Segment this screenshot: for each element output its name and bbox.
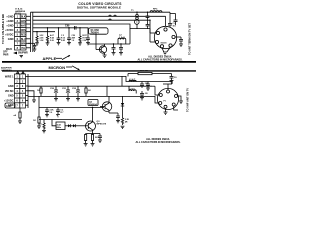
svg-text:BRN: BRN	[21, 43, 26, 45]
ground	[32, 100, 36, 103]
capacitor C13	[140, 82, 144, 89]
transformer T1	[135, 12, 140, 28]
svg-text:3: 3	[16, 85, 18, 88]
capacitor C4	[86, 28, 90, 43]
rotated text right upper	[188, 23, 192, 55]
ground	[103, 55, 107, 58]
J2 pin 6	[172, 35, 175, 38]
capacitor C24	[146, 82, 150, 89]
ground	[170, 81, 174, 84]
label box GND lug	[5, 103, 15, 108]
svg-text:+12VDC: +12VDC	[4, 99, 14, 102]
svg-text:GND: GND	[8, 95, 14, 98]
svg-text:4: 4	[16, 90, 18, 93]
svg-text:PWR: PWR	[3, 54, 9, 56]
ground	[46, 43, 50, 45]
J2 pin 4	[160, 45, 163, 48]
svg-text:RFC: RFC	[153, 9, 158, 11]
resistor R3	[79, 28, 81, 43]
svg-text:BLK: BLK	[21, 16, 26, 18]
connector J1 pin numbers	[17, 16, 19, 51]
resistor R50	[128, 72, 172, 76]
wire to modulator	[169, 12, 171, 21]
inductor L1	[129, 80, 136, 81]
svg-text:TO ANT TERM ON TV SET: TO ANT TERM ON TV SET	[188, 23, 192, 55]
ground	[91, 144, 95, 147]
wire J4 pin5 down	[174, 106, 178, 110]
svg-text:5: 5	[22, 95, 24, 98]
svg-text:3: 3	[17, 25, 19, 28]
value labels	[50, 34, 54, 42]
wire rail B	[39, 119, 82, 121]
svg-text:+GND: +GND	[6, 19, 13, 23]
transistor Q3	[82, 118, 96, 134]
J4 pin 3	[159, 102, 162, 105]
wire to J2 pin2	[149, 20, 151, 33]
ground	[67, 43, 71, 45]
value labels	[40, 35, 45, 42]
ground	[45, 115, 49, 117]
wire Q3 collector up	[92, 108, 94, 119]
rotated text right lower	[186, 88, 190, 112]
separator line APPLE/MICRON	[2, 61, 196, 63]
svg-text:MPS5179: MPS5179	[97, 124, 107, 126]
ground	[164, 112, 168, 115]
wire to J4 pin3	[152, 96, 159, 103]
wire +5V rail	[33, 15, 166, 17]
ground	[121, 126, 125, 128]
svg-text:L1 4.7: L1 4.7	[129, 78, 136, 81]
arrow to switch	[13, 52, 17, 55]
capacitor C9 right	[170, 14, 178, 26]
adapter harness text	[1, 67, 12, 73]
svg-text:MHz: MHz	[57, 127, 62, 129]
wire net top	[31, 11, 171, 13]
svg-text:2 2K: 2 2K	[83, 40, 88, 42]
separator line 2	[2, 70, 196, 72]
connector J3 header marks	[17, 72, 19, 74]
rotated side text: TO PIN ON APPLE II BD	[1, 14, 5, 44]
ground	[112, 53, 116, 56]
svg-text:MC/O: MC/O	[6, 49, 12, 51]
ground	[18, 121, 22, 124]
resistor R6	[85, 86, 87, 96]
switch labels MC/O OFF PWR	[3, 49, 12, 57]
bus J3	[27, 74, 29, 108]
svg-text:TO VHF ANT ON TV: TO VHF ANT ON TV	[186, 88, 190, 112]
title text	[77, 2, 122, 10]
ground	[20, 56, 24, 58]
svg-text:6: 6	[17, 38, 19, 41]
capacitor C23	[28, 43, 36, 49]
J4 pin 1	[167, 90, 170, 93]
svg-text:2N3904: 2N3904	[91, 31, 100, 34]
inductor RFC coil	[150, 11, 162, 13]
resistor R1	[36, 32, 38, 43]
wire from J3 bottom	[19, 108, 21, 112]
capacitor C7b	[146, 25, 150, 29]
resistor R11	[91, 134, 93, 144]
capacitor C16 top right of J4	[171, 80, 173, 84]
svg-text:1.5K: 1.5K	[40, 40, 45, 42]
svg-text:2: 2	[17, 20, 19, 23]
svg-text:1K: 1K	[37, 90, 40, 92]
svg-text:2K: 2K	[95, 137, 98, 139]
wire rail A	[39, 107, 104, 109]
svg-text:6: 6	[22, 100, 24, 103]
wire hop marks	[109, 15, 111, 16]
svg-text:B3x: B3x	[39, 124, 43, 126]
wire rail2	[33, 19, 150, 21]
svg-text:ORN: ORN	[21, 30, 26, 32]
bus bars	[30, 12, 32, 52]
svg-text:2K: 2K	[88, 90, 91, 92]
svg-text:SW/PWR: SW/PWR	[18, 53, 28, 55]
wire drop gnd	[28, 91, 34, 100]
label Q2	[88, 100, 98, 106]
resistor R5	[40, 86, 42, 96]
capacitor C20	[45, 108, 49, 115]
svg-text:1: 1	[22, 76, 24, 79]
ground	[42, 131, 46, 133]
wire to J4 top	[167, 84, 169, 90]
crystal Y1 box	[56, 122, 65, 130]
ground	[146, 88, 150, 90]
resistor R2	[46, 28, 48, 43]
connector J3 body	[15, 74, 26, 108]
value labels	[83, 35, 88, 42]
svg-text:2: 2	[16, 80, 18, 83]
notes lower	[135, 138, 180, 144]
svg-text:161: 161	[173, 25, 176, 27]
wire rail L2	[28, 85, 152, 87]
ground	[179, 101, 183, 104]
svg-text:P1: P1	[164, 101, 166, 103]
capacitor C15	[170, 74, 174, 81]
wire J4 pin4 to ground	[165, 108, 167, 112]
svg-text:5 68: 5 68	[50, 40, 54, 42]
svg-text:WIRE 1: WIRE 1	[5, 75, 14, 78]
inductor L3	[129, 86, 136, 93]
svg-text:SO239: SO239	[161, 43, 167, 45]
wire Q2 emitter	[109, 112, 118, 114]
ground	[56, 115, 60, 117]
ground	[66, 99, 70, 102]
capacitor C11 electrolytic	[54, 86, 58, 98]
J2 pin 2	[156, 31, 159, 34]
value labels	[61, 35, 66, 42]
svg-text:4R: 4R	[125, 121, 128, 124]
value labels	[72, 35, 76, 42]
svg-text:1: 1	[16, 76, 18, 79]
svg-text:WHT: WHT	[21, 25, 27, 27]
capacitor C22 electrolytic	[76, 86, 80, 98]
capacitor C12 electrolytic	[66, 86, 70, 98]
capacitor C2	[67, 28, 71, 43]
wire crystal left	[52, 120, 56, 126]
connector J3 pin numbers	[16, 76, 24, 108]
svg-text:APPLE: APPLE	[43, 56, 57, 61]
wire rail5	[33, 31, 55, 33]
wire to J4 pin2	[152, 85, 155, 87]
label box Q1	[89, 28, 109, 34]
svg-text:5: 5	[17, 34, 19, 37]
capacitor C17	[116, 113, 120, 121]
svg-text:10: 10	[174, 77, 177, 79]
J4 pin 2	[159, 94, 162, 97]
svg-text:1 8: 1 8	[72, 40, 75, 42]
ground	[54, 99, 58, 102]
svg-text:+GND: +GND	[6, 14, 13, 18]
ground	[163, 52, 167, 55]
bus stubs	[26, 15, 31, 17]
resistor R8	[38, 96, 40, 126]
resistor R7	[19, 112, 21, 121]
svg-text:6: 6	[16, 100, 18, 103]
svg-text:RED: RED	[21, 34, 26, 36]
svg-text:T1: T1	[131, 10, 134, 12]
svg-text:L2 10: L2 10	[129, 89, 135, 91]
RF connector J2 shell	[154, 26, 176, 48]
capacitor C8	[168, 21, 172, 27]
connector J1 pin labels	[5, 14, 14, 41]
svg-text:ALL CAPACITORS IN MICROFARADS.: ALL CAPACITORS IN MICROFARADS.	[137, 58, 182, 61]
ground	[116, 121, 120, 123]
svg-text:OFF: OFF	[3, 52, 8, 54]
inductor L2	[118, 38, 126, 44]
svg-text:VID BO: VID BO	[5, 90, 14, 93]
ground	[84, 144, 88, 147]
J2 pin 5	[169, 44, 172, 47]
svg-text:8: 8	[17, 47, 19, 50]
svg-text:GND: GND	[8, 37, 14, 41]
ground	[119, 53, 123, 56]
transistor Q1	[96, 44, 107, 55]
capacitor C21	[56, 108, 60, 115]
svg-text:2: 2	[22, 80, 24, 83]
wire rail L3	[28, 95, 152, 97]
wire rail3	[33, 24, 150, 42]
svg-text:R 7: R 7	[61, 112, 64, 114]
connector J1 header text	[15, 8, 26, 15]
ground	[37, 126, 41, 129]
ground	[86, 43, 90, 45]
svg-text:BLU: BLU	[21, 39, 26, 41]
ground	[140, 98, 144, 101]
svg-text:1.2uH: 1.2uH	[119, 37, 125, 39]
svg-text:YEL: YEL	[21, 48, 26, 50]
notes upper	[137, 55, 182, 61]
diode D3	[73, 124, 82, 127]
wire J2 pin6 to cap	[175, 36, 181, 38]
resistor R9	[43, 120, 45, 131]
J4 pin 6	[175, 95, 178, 98]
svg-text:7: 7	[17, 43, 19, 46]
svg-text:4: 4	[22, 90, 24, 93]
connector J3 pin labels	[4, 75, 14, 107]
capacitor C7	[146, 12, 150, 24]
svg-text:a8: a8	[14, 115, 17, 117]
transistor Q2	[100, 96, 112, 113]
wire to J2 pin3	[150, 41, 155, 43]
diode D1	[121, 96, 124, 118]
svg-text:5 6: 5 6	[50, 112, 53, 114]
ground	[76, 99, 80, 102]
svg-text:MICRON: MICRON	[49, 65, 66, 70]
wire rail4 with node C99	[33, 27, 89, 29]
ground	[98, 140, 102, 143]
ground	[35, 43, 39, 45]
capacitor C18	[93, 134, 103, 141]
resistor R12	[121, 118, 123, 125]
ground	[78, 43, 82, 45]
RF connector J4 shell	[157, 88, 178, 109]
wire Q1 collector rail	[88, 43, 130, 45]
svg-text:DIGITAL SOFTWARE MODULE: DIGITAL SOFTWARE MODULE	[77, 5, 121, 9]
svg-text:7: 7	[16, 104, 18, 107]
wire box loop	[106, 86, 108, 96]
wire J2 pin5 to ground	[167, 47, 171, 52]
svg-text:HARNESS: HARNESS	[1, 69, 12, 72]
svg-text:4: 4	[17, 29, 19, 32]
capacitor C6	[119, 44, 123, 53]
ground	[33, 49, 37, 51]
wire rail L1	[28, 76, 172, 84]
svg-text:+5VDC: +5VDC	[5, 28, 14, 32]
svg-text:GRN: GRN	[21, 21, 26, 23]
wire into J2 top	[165, 16, 167, 26]
ground	[179, 44, 183, 47]
svg-text:C99: C99	[65, 25, 70, 28]
J2 pin 3	[155, 40, 158, 43]
svg-text:ALL CAPACITORS IN MICROFARADS.: ALL CAPACITORS IN MICROFARADS.	[135, 141, 180, 144]
resistor R10	[85, 134, 93, 144]
svg-text:+5VDC: +5VDC	[5, 32, 14, 36]
svg-text:2N3904: 2N3904	[89, 103, 97, 106]
svg-text:R50 750: R50 750	[140, 71, 149, 73]
label MICRON with arrow	[49, 65, 66, 70]
ground	[57, 43, 61, 45]
capacitor C14	[140, 91, 144, 98]
wire J4 pin6	[178, 96, 182, 101]
capacitor C3 on rail4	[75, 26, 77, 30]
svg-text:5 6R: 5 6R	[61, 40, 66, 42]
capacitor C5	[112, 44, 116, 53]
J4 pin 4	[164, 105, 167, 108]
svg-text:1: 1	[17, 16, 19, 19]
svg-text:5: 5	[16, 95, 18, 98]
svg-text:+GND: +GND	[6, 23, 13, 27]
capacitor C10	[179, 37, 183, 44]
connector J1 wire colors	[21, 16, 27, 50]
capacitor C1	[57, 28, 61, 43]
label APPLE with arrow	[43, 56, 57, 61]
wire J2 pin4 to ground	[162, 48, 164, 52]
svg-text:GND: GND	[6, 105, 12, 108]
svg-text:1K: 1K	[33, 120, 36, 122]
wire box to Q1	[95, 34, 97, 44]
svg-text:.05: .05	[145, 93, 149, 95]
svg-text:GND: GND	[8, 85, 14, 88]
J4 pin 5	[172, 103, 175, 106]
J2 pin 1	[164, 28, 167, 31]
node dots	[36, 12, 150, 33]
svg-text:3: 3	[22, 85, 24, 88]
connector J1 body	[15, 14, 27, 50]
svg-text:7: 7	[22, 104, 24, 107]
diode D2	[65, 124, 73, 127]
